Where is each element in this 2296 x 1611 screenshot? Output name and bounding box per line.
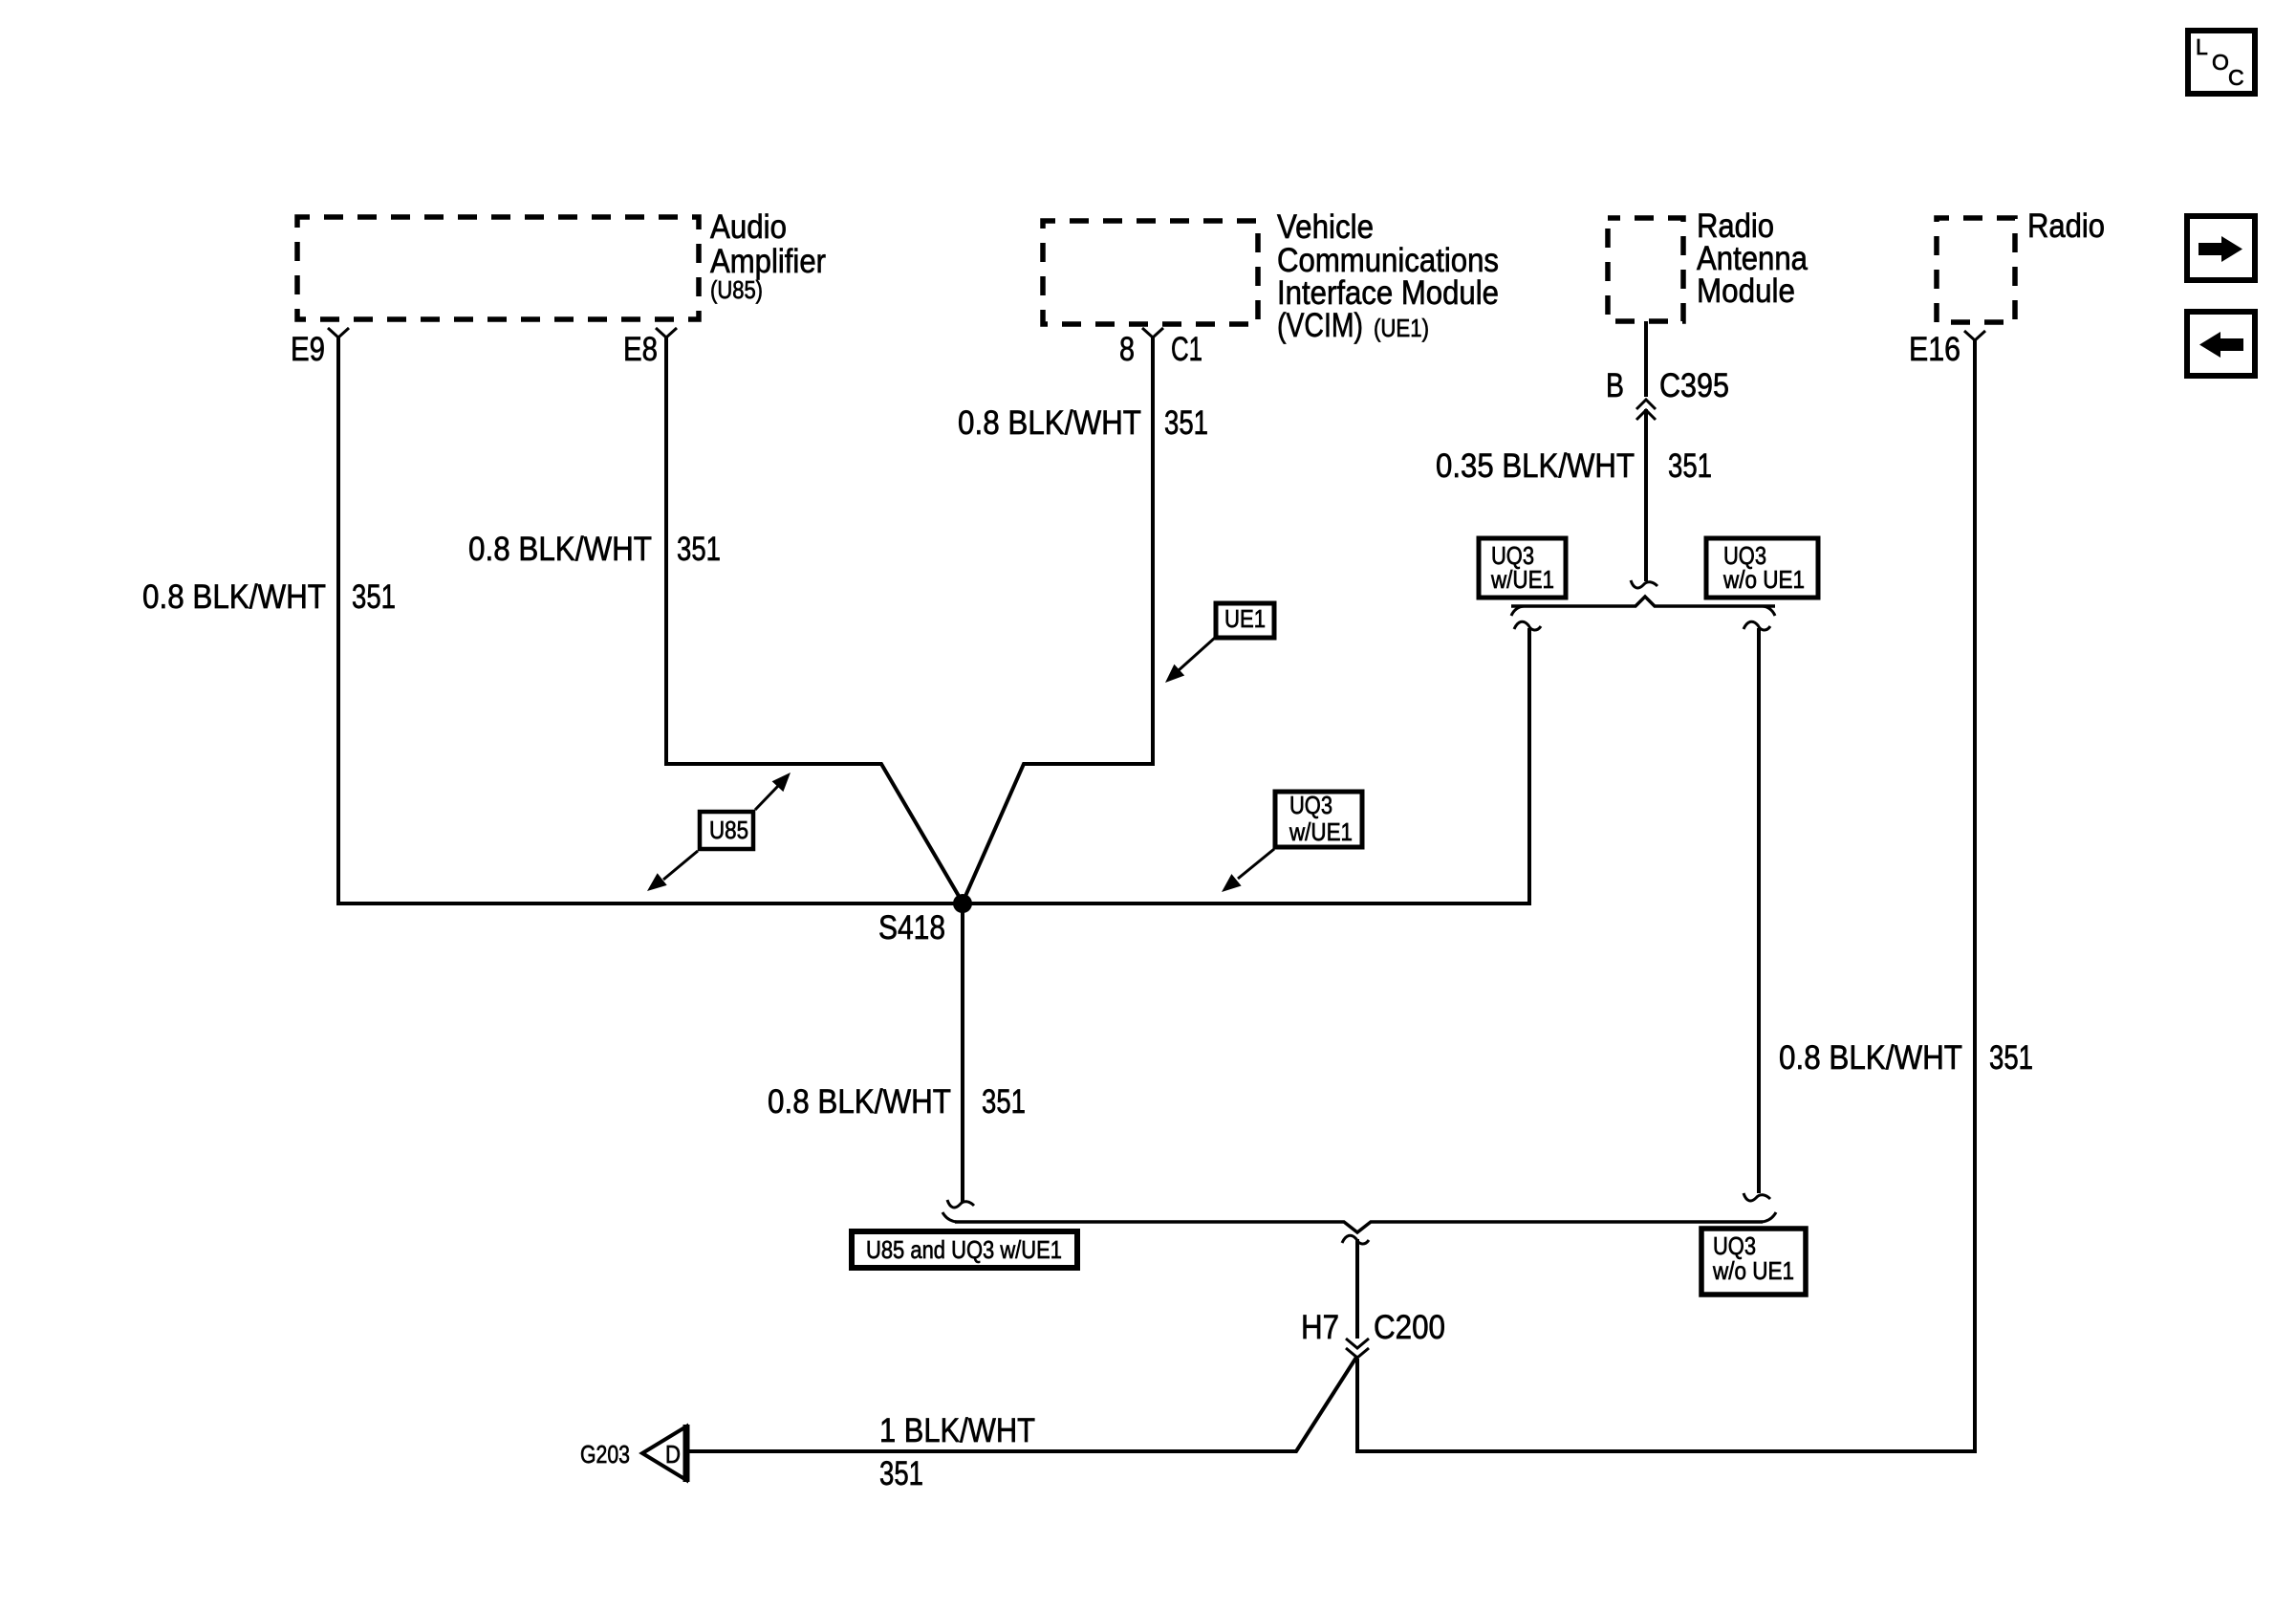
svg-text:351: 351 [677,531,721,568]
pin E8 [623,328,677,368]
callout U85 [647,773,791,891]
component box Radio Antenna Module [1608,207,1808,321]
svg-text:Vehicle: Vehicle [1277,208,1374,246]
wire E8 to S418 [666,337,963,903]
svg-text:U85 and UQ3 w/UE1: U85 and UQ3 w/UE1 [866,1235,1062,1264]
svg-text:0.8 BLK/WHT: 0.8 BLK/WHT [468,531,652,568]
svg-text:351: 351 [1989,1039,2033,1077]
pin 8 C1 [1119,328,1202,368]
svg-text:G203: G203 [580,1440,630,1469]
svg-text:L: L [2196,34,2208,59]
option label box U85 and UQ3 w/UE1 [852,1231,1077,1268]
svg-text:Audio: Audio [710,208,787,246]
svg-text:351: 351 [1164,404,1208,442]
svg-text:S418: S418 [878,909,945,947]
svg-text:U85: U85 [709,816,748,844]
svg-text:0.8 BLK/WHT: 0.8 BLK/WHT [142,578,326,616]
svg-text:351: 351 [982,1083,1026,1121]
svg-text:351: 351 [1668,447,1712,485]
svg-text:D: D [665,1440,681,1469]
wire label 0.8 BLK/WHT 351 (E9) [142,578,396,616]
option label box UQ3 w/o UE1 (bottom) [1701,1229,1806,1295]
svg-text:w/o UE1: w/o UE1 [1722,565,1805,594]
svg-text:C200: C200 [1374,1309,1445,1346]
component box Radio [1937,207,2105,322]
component box Vehicle Communications Interface Module (VCIM) (UE1) [1043,208,1499,344]
svg-text:0.8 BLK/WHT: 0.8 BLK/WHT [1779,1039,1962,1077]
callout UQ3 w-UE1 [1222,791,1362,892]
wire label 0.8 BLK/WHT 351 (E8) [468,531,721,568]
wire label 0.8 BLK/WHT 351 (Radio E16) [1779,1039,2033,1077]
svg-text:351: 351 [879,1455,923,1492]
wire C200 to Radio E16 [1357,340,1975,1451]
svg-text:0.8 BLK/WHT: 0.8 BLK/WHT [958,404,1141,442]
option bar 1 (UQ3 split) [1511,597,1775,616]
svg-text:Radio: Radio [2027,207,2105,245]
legend arrow right box [2187,216,2255,280]
svg-text:C: C [2228,65,2244,90]
svg-text:Module: Module [1697,272,1795,310]
wire E9 to S418 [338,337,963,903]
option label box UQ3 w/o UE1 (top) [1706,538,1818,598]
svg-text:H7: H7 [1301,1309,1339,1346]
wire label 0.8 BLK/WHT 351 (S418 down) [768,1083,1026,1121]
wire C395 to option bar 1 [1631,409,1657,588]
splice S418 [878,894,972,947]
svg-text:E16: E16 [1909,331,1960,368]
svg-text:O: O [2212,50,2229,75]
wire C200 to G203 (diagonal) [689,1356,1357,1451]
connector C395 pin B [1606,367,1729,420]
callout UE1 [1165,603,1274,683]
svg-text:8: 8 [1119,331,1135,368]
pin E16 [1909,331,1985,368]
wire S418 down to option bar 2 [947,903,974,1208]
svg-text:C395: C395 [1659,367,1729,404]
wire label 0.8 BLK/WHT 351 (C1) [958,404,1208,442]
svg-text:w/o UE1: w/o UE1 [1712,1256,1794,1285]
svg-text:C1: C1 [1171,331,1202,368]
wire C1 to S418 [963,337,1153,903]
svg-text:1 BLK/WHT: 1 BLK/WHT [879,1412,1035,1449]
svg-text:0.8 BLK/WHT: 0.8 BLK/WHT [768,1083,951,1121]
component box Audio Amplifier (U85) [297,208,826,319]
pin E9 [291,328,349,368]
svg-text:E8: E8 [623,331,658,368]
wire option bar 1 right drop [1744,621,1770,1201]
svg-text:351: 351 [352,578,396,616]
connector C200 pin H7 [1301,1309,1445,1358]
svg-text:(U85): (U85) [710,275,763,304]
svg-text:w/UE1: w/UE1 [1490,565,1554,594]
svg-text:w/UE1: w/UE1 [1289,817,1353,846]
svg-text:(VCIM): (VCIM) [1277,307,1363,344]
wire label 0.35 BLK/WHT 351 [1436,447,1712,485]
svg-text:UQ3: UQ3 [1289,791,1332,819]
option label box UQ3 w/UE1 (top) [1479,538,1566,598]
wire S418 to option bar 1 (right segment) [963,621,1541,903]
legend arrow left box [2187,312,2255,376]
wire label 1 BLK/WHT 351 [879,1412,1035,1492]
svg-text:E9: E9 [291,331,325,368]
ground G203 [580,1425,686,1482]
option bar 2 (U85 and UQ3 w/UE1 join) [942,1212,1776,1232]
svg-text:0.35 BLK/WHT: 0.35 BLK/WHT [1436,447,1635,485]
wire option bar 2 to C200 [1342,1235,1369,1339]
svg-text:UE1: UE1 [1224,604,1266,633]
legend LOC box [2188,31,2255,94]
svg-text:(UE1): (UE1) [1374,314,1429,342]
wire Radio Antenna Module to C395 [1644,321,1648,397]
svg-text:B: B [1606,367,1624,404]
